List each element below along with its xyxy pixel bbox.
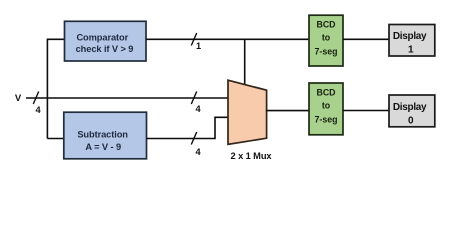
wire mux select drop from comparator line: [244, 39, 246, 85]
subtraction label: [77, 129, 128, 151]
svg-text:1: 1: [196, 41, 201, 51]
bus slash on V input: [33, 92, 38, 105]
bus slash on subtraction output: [191, 132, 196, 145]
mux U1 2x1 multiplexer: [228, 80, 267, 144]
Display 0 block: [389, 95, 435, 127]
svg-text:4: 4: [195, 104, 201, 114]
BCD to 7-seg converter block 0: [309, 83, 343, 135]
Display 0 label: [393, 102, 427, 126]
svg-text:BCD: BCD: [316, 88, 335, 98]
wire BCD0 to Display 0: [343, 110, 389, 112]
svg-text:to: to: [322, 33, 331, 43]
subtraction block: [64, 112, 147, 159]
svg-text:V: V: [15, 93, 22, 104]
svg-text:7-seg: 7-seg: [315, 47, 338, 57]
svg-text:2 x 1 Mux: 2 x 1 Mux: [231, 151, 273, 161]
svg-text:4: 4: [195, 147, 201, 157]
Display 1 block: [389, 25, 435, 57]
svg-text:A = V - 9: A = V - 9: [85, 142, 121, 152]
bus slash on comparator output: [191, 33, 196, 46]
wire BCD1 to Display 1: [343, 38, 389, 40]
comparator block: [65, 21, 147, 61]
svg-text:BCD: BCD: [316, 19, 335, 29]
svg-text:4: 4: [35, 105, 41, 115]
BCD1 label: [315, 19, 338, 56]
svg-text:Display: Display: [393, 31, 427, 42]
svg-text:to: to: [322, 101, 331, 111]
bus slash on V direct line: [191, 92, 196, 105]
comparator label: [76, 32, 134, 54]
wire mux output to BCD0: [266, 110, 309, 112]
svg-text:1: 1: [408, 45, 414, 56]
BCD0 label: [315, 88, 338, 125]
svg-text:7-seg: 7-seg: [315, 114, 338, 124]
BCD to 7-seg converter block 1: [309, 15, 343, 66]
wire comparator output to BCD1: [146, 38, 309, 40]
wire branch to comparator input: [47, 39, 64, 138]
svg-text:Comparator: Comparator: [76, 32, 128, 42]
svg-text:Display: Display: [393, 102, 427, 113]
wire branch to subtraction input: [47, 138, 64, 140]
svg-text:0: 0: [408, 115, 414, 126]
wire V bus to mux input 0: [26, 97, 229, 99]
svg-text:Subtraction: Subtraction: [77, 129, 128, 139]
Display 1 label: [393, 31, 427, 55]
wire subtraction output to mux input 1: [146, 117, 229, 138]
svg-text:check if V > 9: check if V > 9: [76, 44, 134, 54]
